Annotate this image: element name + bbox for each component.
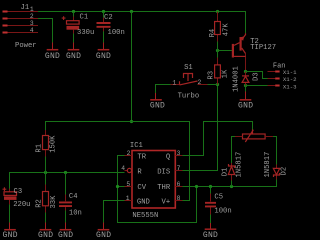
- IC1 pin 1 GND: [125, 195, 133, 202]
- svg-text:GND: GND: [203, 231, 218, 239]
- wire S1 pin2 to junction: [208, 84, 218, 86]
- IC1 pin 2 TR: [125, 150, 133, 157]
- svg-text:GND: GND: [45, 52, 60, 61]
- wire C1 stubs: [73, 12, 75, 43]
- svg-text:1N5817: 1N5817: [264, 152, 272, 178]
- wire pot left to D1: [232, 137, 236, 164]
- svg-text:100n: 100n: [214, 207, 231, 215]
- svg-text:1N4001: 1N4001: [233, 66, 241, 92]
- svg-text:6: 6: [177, 181, 181, 188]
- svg-text:150K: 150K: [49, 135, 57, 153]
- svg-text:X1-1: X1-1: [283, 69, 297, 76]
- svg-text:1K: 1K: [222, 69, 230, 78]
- svg-text:7: 7: [177, 165, 181, 172]
- IC1 NE555N box: [130, 142, 175, 220]
- svg-text:GND: GND: [150, 101, 165, 110]
- svg-text:Power: Power: [15, 42, 37, 50]
- svg-text:TIP127: TIP127: [250, 44, 276, 52]
- IC1 pin 8 V+: [175, 195, 182, 202]
- capacitor C4: [59, 173, 82, 223]
- IC1 pin 6 THR: [175, 181, 182, 188]
- junction DIS/R3/S1: [216, 83, 219, 86]
- svg-text:1: 1: [126, 195, 130, 202]
- capacitor C3: [3, 187, 31, 222]
- svg-text:1: 1: [30, 6, 34, 13]
- svg-text:1N5817: 1N5817: [235, 152, 243, 178]
- svg-text:R1: R1: [35, 144, 43, 153]
- svg-text:GND: GND: [96, 52, 111, 61]
- svg-text:X1-2: X1-2: [283, 76, 297, 83]
- svg-text:C3: C3: [14, 188, 23, 196]
- transistor T2 TIP127: [232, 33, 276, 57]
- svg-text:47K: 47K: [222, 23, 230, 37]
- ground C5: [203, 223, 218, 240]
- ground C4: [58, 223, 73, 240]
- junction D3 top / fan feed: [244, 70, 247, 73]
- junction THR/C5: [209, 185, 212, 188]
- ground IC pin1: [96, 223, 111, 240]
- resistor R3: [208, 58, 230, 85]
- svg-text:CV: CV: [137, 184, 146, 192]
- diode D3 1N4001: [233, 66, 261, 92]
- svg-text:TR: TR: [137, 153, 146, 161]
- svg-text:GND: GND: [137, 198, 150, 206]
- wire THR line to D1 D2 C5: [183, 180, 277, 187]
- connector J1: [3, 4, 39, 50]
- junction R4/R3/T2 base: [216, 49, 219, 52]
- wire CV stub: [118, 186, 125, 188]
- IC1 pin 4 R with bubble: [121, 165, 131, 173]
- svg-text:3: 3: [30, 20, 34, 27]
- wire D3 to GND: [245, 86, 247, 92]
- wire +12V vertical drop: [131, 12, 133, 122]
- svg-text:8: 8: [177, 195, 181, 202]
- wire J1 pin2 to GND: [38, 19, 53, 43]
- svg-text:C5: C5: [214, 194, 223, 202]
- junction rail/+12 vertical: [130, 10, 133, 13]
- junction rail/R4: [216, 10, 219, 13]
- svg-text:D1: D1: [221, 168, 229, 177]
- capacitor C1: [62, 14, 95, 38]
- svg-text:GND: GND: [58, 231, 73, 239]
- svg-text:2: 2: [30, 13, 34, 20]
- svg-text:D3: D3: [253, 72, 261, 81]
- junction rail/C1: [72, 10, 75, 13]
- wire T2 collector to D3: [245, 54, 247, 71]
- svg-text:2: 2: [127, 150, 131, 157]
- svg-text:C4: C4: [69, 193, 78, 201]
- switch S1 Turbo: [171, 64, 208, 101]
- connector X1 Fan: [268, 62, 298, 90]
- svg-text:C2: C2: [104, 14, 113, 22]
- svg-text:IC1: IC1: [130, 142, 143, 150]
- svg-text:R4: R4: [209, 29, 217, 38]
- svg-text:1: 1: [172, 79, 176, 86]
- ground R2: [38, 223, 53, 240]
- wire C2 stubs: [103, 12, 105, 43]
- svg-text:Q: Q: [166, 153, 170, 161]
- IC1 pin 5 CV: [125, 181, 133, 188]
- IC1 pin 7 DIS: [175, 165, 182, 172]
- wire T2 base: [218, 50, 232, 52]
- wire pot right to D2: [273, 137, 277, 165]
- resistor R2: [35, 173, 58, 223]
- wire fan X1-3: [246, 85, 268, 87]
- resistor R1: [35, 130, 57, 173]
- svg-text:4: 4: [30, 27, 34, 34]
- wire R4 bottom stub: [217, 42, 219, 58]
- potentiometer trimmer: [235, 130, 273, 143]
- svg-text:X1-3: X1-3: [283, 83, 297, 90]
- svg-text:R: R: [137, 168, 142, 176]
- svg-text:DIS: DIS: [157, 168, 170, 176]
- svg-text:R3: R3: [208, 71, 216, 80]
- svg-text:V+: V+: [162, 198, 171, 206]
- svg-text:Turbo: Turbo: [178, 93, 200, 101]
- junction C4 tap: [64, 171, 67, 174]
- wire Q output to pot wiper: [182, 122, 253, 156]
- svg-text:10n: 10n: [69, 209, 82, 217]
- wire +12V horizontal to R1 and V+ riser to pin 8: [46, 122, 190, 201]
- wire D1 bottom: [231, 181, 233, 187]
- ground C3: [3, 223, 18, 240]
- svg-text:R2: R2: [35, 199, 43, 208]
- junction THR/chain riser: [195, 185, 198, 188]
- ground S1: [150, 93, 165, 110]
- wire IC pin1 to GND: [104, 201, 125, 223]
- svg-text:GND: GND: [38, 231, 53, 239]
- junction D3 bottom / fan return: [244, 84, 247, 87]
- svg-text:GND: GND: [96, 231, 111, 239]
- svg-text:D2: D2: [281, 167, 289, 176]
- wire TR-CV-THR chain: [118, 156, 197, 223]
- svg-text:GND: GND: [66, 52, 81, 61]
- wire node-A horizontal R1/R2/C3/C4 to R-pin: [10, 173, 125, 189]
- svg-text:GND: GND: [3, 231, 18, 239]
- svg-text:NE555N: NE555N: [132, 212, 158, 220]
- junction CV tap: [116, 185, 119, 188]
- svg-text:2: 2: [198, 79, 202, 86]
- ground D3: [238, 92, 253, 111]
- ground C1: [66, 43, 81, 61]
- junction R1/R2 node: [44, 171, 47, 174]
- svg-text:5: 5: [126, 181, 130, 188]
- svg-text:100n: 100n: [108, 29, 125, 37]
- wire fan X1-2 jog: [246, 72, 268, 79]
- svg-text:4: 4: [121, 165, 125, 172]
- svg-text:S1: S1: [184, 64, 193, 72]
- svg-text:C1: C1: [80, 14, 89, 22]
- svg-text:THR: THR: [157, 184, 171, 192]
- capacitor C2: [97, 14, 125, 37]
- junction rail/C2: [102, 10, 105, 13]
- resistor R4: [209, 12, 230, 42]
- svg-text:3: 3: [177, 150, 181, 157]
- svg-text:330u: 330u: [77, 29, 94, 37]
- diode D1 1N5817: [221, 152, 243, 181]
- junction +12 node: [130, 120, 133, 123]
- svg-text:GND: GND: [238, 102, 253, 111]
- ground J1 pin2: [45, 43, 60, 61]
- capacitor C5: [205, 187, 232, 224]
- IC1 pin 3 Q: [175, 150, 182, 157]
- wire DIS to R3/S1 junction: [182, 85, 218, 171]
- svg-text:220u: 220u: [13, 201, 30, 209]
- ground C2: [96, 43, 111, 61]
- svg-text:33K: 33K: [50, 195, 58, 209]
- wire S1 pin1 to GND: [156, 85, 171, 94]
- junction THR/D1: [230, 185, 233, 188]
- svg-text:J1: J1: [21, 4, 30, 12]
- diode D2 1N5817: [264, 152, 288, 180]
- wire +12V top rail from J1 pin1 to T2 emitter: [38, 12, 246, 34]
